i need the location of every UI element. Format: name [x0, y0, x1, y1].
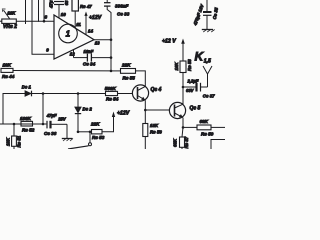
node junction dot pin8 — [43, 20, 46, 23]
+12V supply arrow (right, Rc58) — [181, 39, 185, 62]
node dot Qc4 emitter — [144, 109, 147, 112]
svg-text:Cc 34: Cc 34 — [83, 61, 96, 66]
capacitor Cc34 — [74, 50, 112, 62]
wire Qc4 emitter down — [144, 100, 146, 110]
diode Dc1 — [25, 91, 32, 97]
svg-text:11: 11 — [76, 22, 81, 27]
svg-text:10K: 10K — [174, 62, 179, 71]
svg-text:+12 V: +12 V — [162, 38, 176, 44]
svg-text:63: 63 — [64, 0, 69, 5]
svg-text:Dc 2: Dc 2 — [83, 106, 93, 111]
node dot x43 bottom — [42, 123, 45, 126]
+12V supply arrow (op-amp) — [84, 12, 87, 35]
svg-text:47μF: 47μF — [46, 113, 57, 118]
svg-text:25V: 25V — [57, 117, 67, 122]
svg-text:Dc 1: Dc 1 — [22, 84, 32, 89]
svg-text:13: 13 — [95, 41, 100, 46]
svg-text:Rc 57: Rc 57 — [184, 136, 189, 148]
wire Qc5 emitter — [182, 118, 184, 128]
wire Rc53 to +12V arrow — [102, 117, 114, 132]
svg-text:Cc 33: Cc 33 — [117, 11, 130, 16]
wire emitter to Qc5 base — [145, 109, 169, 111]
node dot Rc58/collector — [182, 86, 185, 89]
svg-text:Qc 5: Qc 5 — [190, 106, 201, 112]
wire vertical from top 3 — [38, 0, 40, 22]
ground (Cc36) — [62, 139, 73, 142]
svg-text:68K: 68K — [172, 138, 177, 147]
transistor Qc4 — [132, 85, 148, 101]
op-amp inner circle 1 — [59, 24, 78, 43]
svg-text:1: 1 — [66, 30, 71, 39]
svg-text:+12V: +12V — [117, 110, 130, 116]
svg-text:10K: 10K — [7, 10, 16, 15]
wire Qc5 collector — [182, 87, 184, 104]
resistor Rc55 22K — [111, 69, 136, 74]
node dot rail x43 — [42, 92, 45, 95]
+12V supply arrow (middle) — [112, 112, 115, 118]
svg-text:Qc 4: Qc 4 — [151, 87, 162, 93]
resistor Rc53 22K — [92, 130, 103, 134]
svg-text:Rc 52: Rc 52 — [22, 128, 35, 133]
capacitor Cc33 — [104, 0, 111, 71]
wire x43 vertical (rail to rail) — [42, 94, 44, 125]
ground (Ce35) — [202, 30, 215, 33]
svg-text:Rc 59: Rc 59 — [201, 131, 214, 136]
component box bottom right (cut) — [211, 140, 225, 150]
svg-text:Cc 36: Cc 36 — [44, 131, 57, 136]
diode Dc2 — [75, 94, 81, 132]
svg-text:Rc 44: Rc 44 — [2, 74, 15, 79]
svg-text:Rc 53: Rc 53 — [92, 135, 105, 140]
capacitor top (cut) at pin10 — [54, 2, 64, 19]
wire Rc55 to Qc4 collector — [136, 71, 146, 87]
node dot Cc34/bus — [110, 56, 113, 59]
wire vertical from top 2 (down to pin 9) — [32, 0, 54, 54]
wire vertical from top 1 — [25, 0, 27, 24]
svg-text:Rc 54: Rc 54 — [106, 97, 119, 102]
node dot Dc2 bottom — [77, 131, 80, 134]
svg-text:VRc 2: VRc 2 — [3, 24, 17, 30]
node dot rail x78 — [77, 92, 80, 95]
node dot bus bottom — [110, 70, 113, 73]
node dot output — [110, 38, 113, 41]
wire Dc2 row — [78, 131, 92, 133]
resistor Rc56 10K — [143, 110, 148, 149]
resistor Rc57 68K (vertical, cut) — [180, 127, 185, 149]
wire Rc54 to Qc4 base — [118, 93, 133, 95]
resistor Rc54 560K — [106, 91, 118, 95]
switch contact — [68, 132, 92, 149]
resistor Rc58 10K (vertical) — [180, 61, 186, 87]
svg-text:2,2μF: 2,2μF — [187, 78, 199, 83]
svg-text:10K: 10K — [6, 137, 11, 146]
svg-text:12: 12 — [70, 52, 75, 57]
svg-text:330nF: 330nF — [115, 3, 128, 8]
svg-text:47μ: 47μ — [49, 0, 54, 9]
resistor Rc59 68K — [197, 125, 211, 130]
svg-text:22K: 22K — [121, 63, 131, 68]
wire base rail y=93.5 — [3, 94, 106, 125]
wire pin8 row — [16, 20, 54, 22]
resistor Rc52 160K — [21, 121, 33, 126]
svg-text:10nF: 10nF — [84, 49, 94, 54]
svg-text:+12V: +12V — [89, 15, 102, 21]
wire emitter row to Rc59 — [183, 126, 197, 128]
svg-text:Rc 58: Rc 58 — [187, 59, 192, 71]
svg-text:18K: 18K — [3, 63, 12, 68]
wire vertical from top 4 — [43, 0, 45, 21]
svg-text:Rc 47: Rc 47 — [80, 4, 92, 9]
op-amp U1 triangle — [54, 15, 94, 59]
potentiometer VRc2 — [0, 9, 16, 23]
resistor Rc47 (cut at top) — [72, 0, 78, 28]
svg-text:160K: 160K — [20, 116, 32, 121]
svg-text:10: 10 — [61, 12, 66, 17]
resistor Rc44 18K — [1, 68, 111, 72]
svg-text:Rc 51: Rc 51 — [16, 135, 21, 147]
wire op-amp output — [94, 39, 111, 41]
transistor Qc5 — [169, 102, 185, 118]
capacitor Cc37 2.2uF — [183, 83, 208, 92]
svg-text:1,5: 1,5 — [204, 58, 211, 64]
svg-text:560K: 560K — [105, 86, 117, 91]
node dot Qc5 emitter — [182, 126, 185, 129]
node dot rail x14 — [13, 123, 16, 126]
svg-text:63V: 63V — [186, 88, 195, 93]
connector K1.5 — [203, 66, 212, 87]
svg-text:10K: 10K — [150, 123, 159, 128]
resistor Rc51 10K (vertical, cut) — [12, 124, 17, 149]
svg-text:Rc 56: Rc 56 — [150, 130, 162, 135]
svg-text:68K: 68K — [200, 119, 209, 124]
svg-text:Rc 55: Rc 55 — [123, 75, 136, 80]
svg-text:22K: 22K — [90, 121, 100, 126]
wire bottom-left rail — [0, 123, 46, 125]
svg-text:14: 14 — [88, 29, 93, 34]
node dot switch — [89, 131, 92, 134]
svg-text:Cc 37: Cc 37 — [203, 93, 215, 98]
capacitor Cc36 47uF — [47, 121, 67, 139]
capacitor Ce35 (top right electrolytic) — [203, 0, 212, 29]
